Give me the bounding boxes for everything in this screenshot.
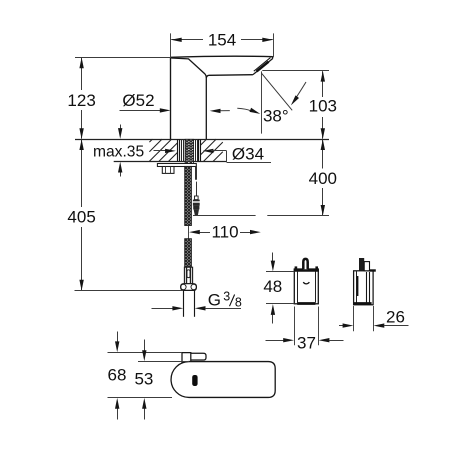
dim max.35 arrow top bbox=[120, 125, 122, 131]
hose break centerline bbox=[188, 226, 190, 239]
shank central threaded rod bbox=[185, 139, 194, 166]
mounting nut bbox=[162, 167, 174, 174]
side box inner lines bbox=[366, 272, 368, 304]
svg-text:53: 53 bbox=[134, 370, 153, 389]
side box left inner dark bar bbox=[357, 276, 359, 296]
dim 154 extension line right bbox=[273, 33, 275, 57]
dim 154 line bbox=[171, 39, 203, 41]
38 deg vertical reference line bbox=[261, 71, 263, 133]
mounting washer bar bbox=[157, 164, 196, 167]
38 deg arc leader arrow bbox=[294, 82, 306, 101]
control box front top thick edge bbox=[294, 269, 319, 272]
dim 68 extension top bbox=[108, 352, 182, 354]
deck hatching left of shank bbox=[149, 139, 152, 142]
deck hatching right of shank bbox=[201, 139, 207, 145]
spout outlet dark slot bbox=[257, 62, 269, 72]
dim 400 extension line bottom bbox=[193, 215, 256, 217]
dim 48 extension lines bbox=[266, 271, 294, 273]
dim 123 extension line top bbox=[75, 57, 170, 59]
base width arrow left bbox=[218, 110, 230, 112]
side box step block bbox=[364, 262, 369, 271]
svg-text:max.35: max.35 bbox=[93, 144, 144, 161]
faucet body elevation: top edge bbox=[171, 56, 273, 57]
side box top flange bbox=[370, 269, 376, 271]
dim max.35 arrow bottom bbox=[120, 171, 122, 177]
side box outline bbox=[354, 271, 374, 305]
braided supply hose upper segment bbox=[185, 166, 192, 225]
svg-text:3: 3 bbox=[223, 290, 230, 304]
dim 405 line bbox=[81, 140, 83, 207]
shank inner tube lines bbox=[181, 139, 183, 161]
faucet body elevation: lower wedge + column front edge bbox=[171, 58, 206, 139]
dim G3/8 arrow left bbox=[152, 308, 174, 310]
plan view sensor bump part 2 bbox=[191, 353, 206, 360]
spout tip right edge bbox=[272, 57, 274, 59]
spout outlet blade inner line bbox=[254, 58, 271, 72]
side box left double edge bbox=[356, 271, 358, 305]
base width arrow right (curved) bbox=[237, 108, 251, 111]
control box corner nubs bbox=[295, 266, 298, 268]
svg-text:103: 103 bbox=[309, 97, 337, 116]
spout outlet blade outer line bbox=[253, 58, 273, 74]
G3/8 hex nut bbox=[181, 284, 197, 291]
shank outer wall lines bbox=[177, 139, 179, 161]
svg-text:Ø52: Ø52 bbox=[122, 91, 154, 110]
dim 110 line bbox=[199, 232, 210, 234]
dim 53 extension top bbox=[138, 361, 189, 363]
dim Ø34 leader step bbox=[226, 151, 228, 162]
cable connector plug bbox=[195, 196, 199, 200]
dim 103 extension line top bbox=[262, 70, 329, 72]
dim 48 arrows bbox=[272, 253, 274, 262]
dim 103 line bbox=[322, 71, 324, 97]
sensor cable lower bbox=[196, 182, 198, 199]
plan view sensor bump part 1 bbox=[182, 353, 191, 364]
control box bottom thick bar bbox=[297, 302, 315, 305]
sensor cable upper bbox=[195, 167, 197, 180]
dim 400 line bbox=[322, 140, 324, 169]
dim Ø52 leader bbox=[120, 110, 162, 112]
fitting slot bbox=[187, 270, 190, 278]
side box bottom thick edge bbox=[354, 302, 372, 305]
dim 68 extension bottom bbox=[108, 397, 173, 399]
svg-text:123: 123 bbox=[67, 91, 95, 110]
svg-text:26: 26 bbox=[386, 308, 405, 327]
dim 405 extension line bottom bbox=[75, 290, 184, 292]
dim 26 arrows bbox=[339, 325, 344, 327]
control box cable nipple bbox=[303, 259, 307, 269]
countertop deck bottom line bbox=[114, 161, 227, 163]
faucet body elevation: back edge bbox=[170, 57, 172, 139]
svg-text:110: 110 bbox=[211, 223, 238, 242]
svg-text:154: 154 bbox=[208, 31, 236, 50]
control box front outline bbox=[294, 269, 318, 304]
faucet head underside bbox=[206, 75, 253, 78]
dim 53 arrows bbox=[144, 340, 146, 352]
countertop deck top line bbox=[75, 139, 329, 141]
dim 68 arrows bbox=[117, 332, 119, 343]
38 deg inclined reference line bbox=[262, 73, 293, 110]
svg-text:405: 405 bbox=[67, 207, 95, 226]
connection pipe G3/8 bbox=[183, 290, 185, 316]
dim Ø34 underline bbox=[227, 162, 271, 164]
svg-text:8: 8 bbox=[235, 295, 242, 309]
control box sensor smile bbox=[303, 282, 309, 284]
dim Ø34 arrow left bbox=[154, 150, 168, 152]
svg-text:37: 37 bbox=[297, 334, 316, 353]
dim 154 extension line left (above body) bbox=[170, 33, 172, 57]
dim 123 line bbox=[81, 58, 83, 90]
svg-text:38°: 38° bbox=[263, 106, 289, 125]
svg-text:48: 48 bbox=[263, 277, 282, 296]
plan view dark mark bbox=[192, 375, 197, 386]
control box inner panel lines bbox=[297, 272, 299, 303]
dim G3/8 arrow right bbox=[195, 306, 206, 310]
svg-text:400: 400 bbox=[309, 169, 337, 188]
dim 37 extension lines bbox=[294, 307, 296, 346]
plan view faucet body outline bbox=[171, 362, 275, 398]
braided supply hose lower segment bbox=[185, 239, 192, 268]
svg-text:68: 68 bbox=[108, 366, 127, 385]
svg-text:G: G bbox=[208, 290, 221, 309]
side box nipple bbox=[359, 258, 364, 271]
dim Ø34 arrow right + leader bbox=[203, 149, 214, 153]
dim 37 arrows bbox=[266, 340, 285, 342]
svg-text:Ø34: Ø34 bbox=[232, 145, 264, 164]
dim 26 extension lines bbox=[353, 306, 355, 331]
hose end fitting sleeve bbox=[184, 267, 192, 284]
